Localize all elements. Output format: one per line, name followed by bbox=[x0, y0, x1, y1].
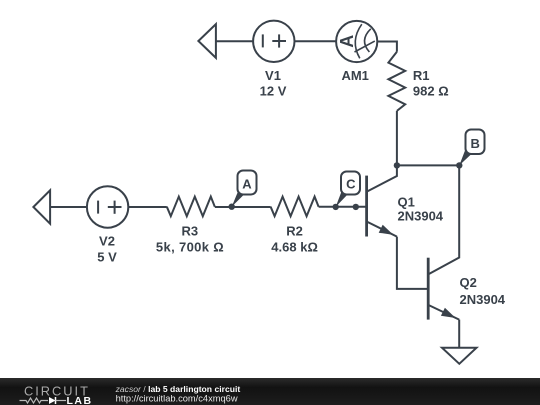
svg-text:2N3904: 2N3904 bbox=[398, 209, 444, 224]
svg-text:V2: V2 bbox=[99, 234, 115, 249]
label V2 5 V bbox=[97, 234, 117, 265]
wire Q1 emitter to Q2 base bbox=[397, 237, 428, 289]
ammeter AM1 bbox=[336, 21, 377, 62]
svg-text:Q1: Q1 bbox=[398, 195, 415, 210]
svg-text:2N3904: 2N3904 bbox=[460, 292, 506, 307]
footer bar bbox=[0, 378, 540, 405]
transistor Q1 bbox=[367, 165, 397, 236]
wire Q2 emitter to ground bbox=[458, 320, 460, 348]
voltage source V2 bbox=[87, 186, 128, 227]
label AM1 bbox=[341, 68, 368, 83]
svg-text:C: C bbox=[346, 176, 356, 191]
svg-text:http://circuitlab.com/c4xmq6w: http://circuitlab.com/c4xmq6w bbox=[116, 394, 238, 404]
svg-text:A: A bbox=[242, 177, 252, 192]
CircuitLab logo LAB bbox=[67, 395, 93, 405]
resistor R1 bbox=[388, 52, 405, 111]
junction dot node C bbox=[333, 204, 339, 210]
svg-text:4.68 kΩ: 4.68 kΩ bbox=[271, 240, 318, 255]
svg-text:zacsor / lab 5 darlington circ: zacsor / lab 5 darlington circuit bbox=[115, 384, 241, 394]
svg-text:R2: R2 bbox=[286, 224, 303, 239]
transistor Q2 bbox=[428, 165, 459, 319]
footer url text bbox=[116, 394, 238, 404]
junction dot node B bbox=[456, 162, 462, 168]
node C label bbox=[336, 172, 360, 207]
resistor R3 bbox=[167, 197, 215, 217]
node B label bbox=[459, 130, 484, 166]
svg-text:Q2: Q2 bbox=[460, 275, 477, 290]
label V1 12 V bbox=[260, 68, 287, 99]
wire bus to Q2 collector branch bbox=[397, 164, 459, 166]
wire AM1 to R1 bbox=[377, 42, 397, 52]
svg-text:5k, 700k Ω: 5k, 700k Ω bbox=[156, 239, 224, 254]
node A label bbox=[232, 171, 257, 207]
wire V1 to AM1 bbox=[295, 40, 337, 42]
label R1 982 ohm bbox=[413, 68, 449, 99]
footer title text bbox=[115, 384, 241, 394]
wire R2 to Q1 base bbox=[319, 206, 367, 208]
wire V2 to R3 bbox=[128, 206, 167, 208]
wire R3 to R2 bbox=[215, 206, 271, 208]
svg-text:B: B bbox=[471, 136, 480, 151]
junction dot left of bus bbox=[394, 162, 400, 168]
svg-text:982 Ω: 982 Ω bbox=[413, 84, 449, 99]
ground bbox=[442, 348, 477, 364]
svg-text:R1: R1 bbox=[413, 68, 430, 83]
CircuitLab logo CIRCUIT bbox=[24, 383, 90, 398]
junction dot node A bbox=[229, 204, 235, 210]
svg-text:A: A bbox=[337, 35, 357, 48]
resistor R2 bbox=[271, 197, 319, 217]
svg-text:LAB: LAB bbox=[67, 395, 93, 405]
svg-text:R3: R3 bbox=[181, 224, 198, 239]
net flag (left, V2 negative terminal) bbox=[33, 190, 50, 223]
wire flag to V2 bbox=[50, 206, 87, 208]
label Q2 2N3904 bbox=[460, 275, 506, 307]
svg-text:12 V: 12 V bbox=[260, 84, 287, 99]
net flag (top left, V1 negative terminal) bbox=[198, 24, 216, 58]
CircuitLab logo resistor-diode-wire bbox=[20, 397, 67, 404]
svg-text:V1: V1 bbox=[265, 68, 281, 83]
svg-text:5 V: 5 V bbox=[97, 249, 117, 264]
label Q1 2N3904 bbox=[398, 195, 444, 224]
label R3 5k 700k bbox=[156, 224, 224, 255]
label R2 4.68k bbox=[271, 224, 318, 255]
wire R1 to node B bus bbox=[396, 111, 398, 165]
svg-text:AM1: AM1 bbox=[341, 68, 368, 83]
wire flag to V1 bbox=[216, 40, 253, 42]
junction dot Q1 base bbox=[353, 204, 359, 210]
voltage source V1 bbox=[253, 21, 294, 62]
